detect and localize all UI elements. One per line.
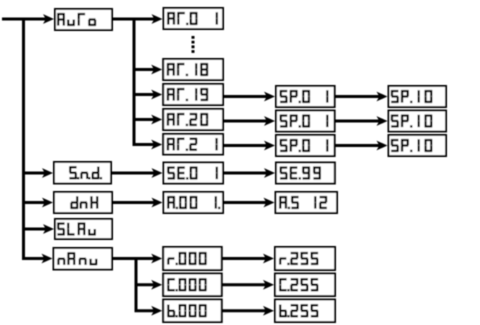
box Snd: [54, 162, 111, 184]
wire nAnu to rgb branch trunk: [112, 259, 136, 311]
arrow AT.21 to SP.01c: [223, 141, 275, 151]
box SP.01b: [276, 111, 335, 132]
box SLAu: [55, 219, 112, 239]
box G.255: [275, 274, 335, 297]
box AT.20: [163, 109, 223, 130]
dashed ellipsis between AT.01 and AT.18: [192, 36, 195, 53]
box b.255: [275, 300, 335, 323]
box G.000: [163, 274, 222, 297]
box SP.10b: [389, 111, 447, 132]
wire entry line + main trunk: [2, 19, 24, 259]
arrow SP.01b to SP.10b: [335, 116, 388, 126]
arrow to AT.19: [133, 90, 163, 100]
box nAnu: [54, 248, 113, 270]
box AT.21: [163, 134, 223, 155]
arrow to AT.21: [133, 140, 163, 150]
arrow AT.19 to SP.01a: [223, 92, 275, 102]
wire AuTo to AT branch trunk: [112, 19, 134, 145]
arrow b.000 to b.255: [222, 306, 274, 316]
box r.000: [163, 247, 222, 270]
box SP.10c: [389, 135, 447, 156]
arrow SE.01 to SE.99: [223, 168, 275, 178]
arrow to r.000: [135, 254, 163, 264]
arrow to dnX: [22, 198, 53, 208]
arrow to AT.01: [133, 14, 163, 24]
box SE.99: [276, 163, 335, 184]
box AuTo: [55, 9, 112, 30]
box SP.01c: [276, 135, 335, 156]
arrow dnX to A.001: [112, 198, 163, 208]
arrow to nAnu: [22, 254, 53, 264]
arrow SP.01c to SP.10c: [335, 141, 388, 151]
arrow to AuTo: [22, 14, 54, 24]
arrow AT.20 to SP.01b: [223, 116, 275, 126]
box SP.01a: [276, 86, 335, 107]
arrow to G.000: [135, 280, 163, 290]
arrow Snd to SE.01: [111, 168, 163, 178]
box r.255: [275, 247, 335, 270]
arrow r.000 to r.255: [222, 254, 274, 264]
arrow to b.000: [135, 306, 163, 316]
box AT.18: [163, 59, 223, 80]
arrow G.000 to G.255: [222, 280, 274, 290]
arrow A.001 to A.512: [223, 198, 275, 208]
box SE.01: [164, 163, 224, 184]
box dnX: [54, 192, 112, 213]
box AT.19: [163, 84, 223, 105]
box A.512: [276, 192, 338, 213]
arrow to AT.18: [133, 65, 163, 75]
arrow to SLAu: [22, 224, 54, 234]
arrow to AT.20: [133, 115, 163, 125]
box b.000: [163, 300, 222, 323]
box SP.10a: [389, 86, 447, 107]
box AT.01: [164, 8, 224, 29]
box A.001: [164, 192, 224, 213]
arrow SP.01a to SP.10a: [335, 92, 388, 102]
arrow to Snd: [22, 168, 53, 178]
